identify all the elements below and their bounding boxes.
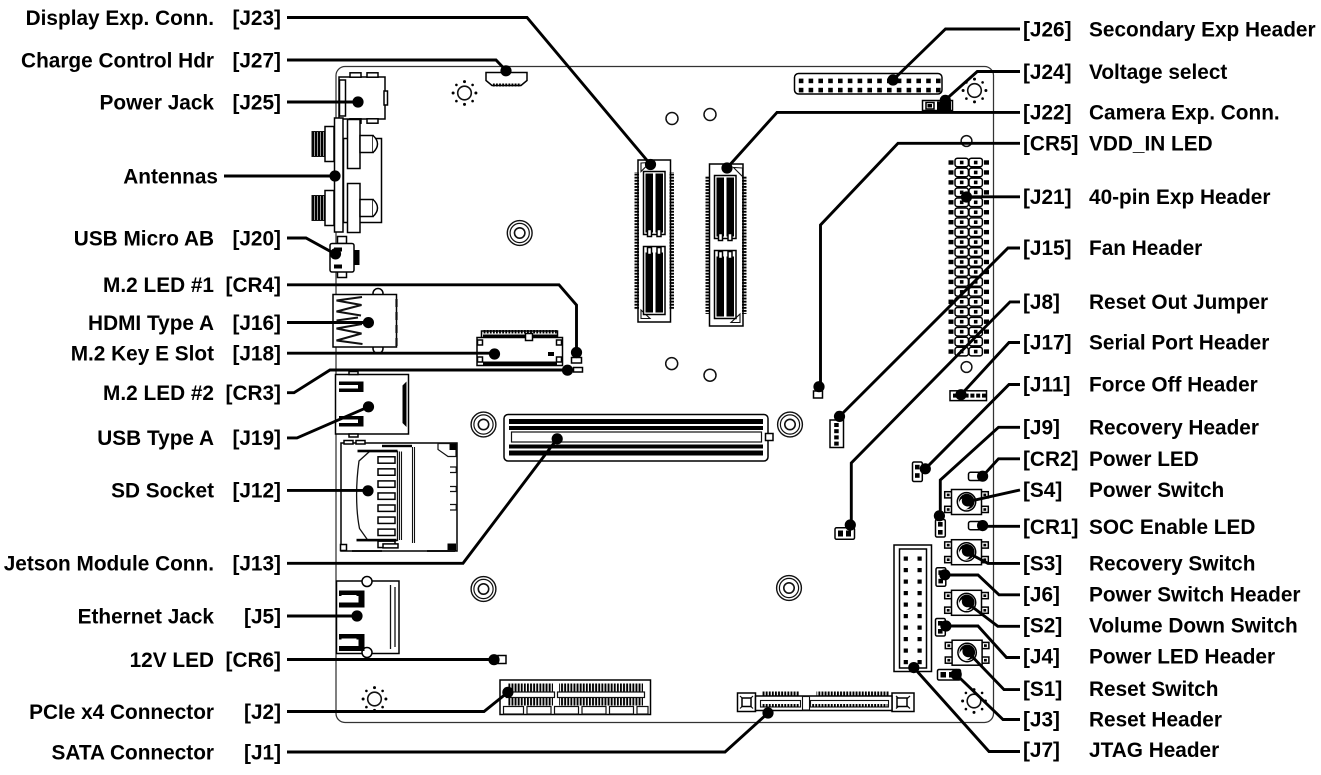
LED indicator mark top-right [962, 78, 988, 104]
svg-text:USB Micro AB: USB Micro AB [74, 227, 214, 250]
svg-text:[J22]: [J22] [1023, 102, 1072, 125]
wire J7 [914, 668, 1020, 752]
wire J19 [287, 407, 369, 438]
wire J21 [967, 195, 1021, 198]
svg-text:Power Switch: Power Switch [1089, 479, 1224, 502]
svg-text:[CR4]: [CR4] [226, 274, 281, 297]
wire J15 [840, 248, 1021, 416]
wire J8 [851, 302, 1020, 522]
wire J12 [287, 489, 368, 492]
svg-text:[J2]: [J2] [244, 701, 281, 724]
fan header J15 [830, 420, 844, 448]
svg-text:SD Socket: SD Socket [111, 480, 214, 503]
svg-text:Voltage select: Voltage select [1089, 61, 1227, 84]
power jack J25 [339, 73, 388, 123]
svg-text:Reset Out Jumper: Reset Out Jumper [1089, 291, 1268, 314]
svg-text:Recovery Switch: Recovery Switch [1089, 553, 1255, 576]
svg-text:Charge Control Hdr: Charge Control Hdr [21, 49, 214, 72]
svg-text:USB Type A: USB Type A [97, 427, 214, 450]
svg-text:[J8]: [J8] [1023, 291, 1060, 314]
wire S4 [967, 490, 1020, 502]
svg-text:Jetson Module Conn.: Jetson Module Conn. [4, 553, 214, 576]
HDMI type A J16 [333, 289, 397, 354]
LED indicator mark bottom-left [362, 686, 388, 712]
wire J23 [287, 18, 651, 165]
via hole D [961, 362, 972, 373]
wire J4 [946, 626, 1020, 658]
svg-text:[J27]: [J27] [232, 49, 281, 72]
wire S1 [968, 652, 1020, 690]
svg-text:[J15]: [J15] [1023, 237, 1072, 260]
svg-text:[J16]: [J16] [232, 312, 281, 335]
serial port header J17 [950, 391, 987, 401]
power switch header J6 [936, 568, 946, 587]
svg-text:Fan Header: Fan Header [1089, 237, 1202, 260]
svg-text:[J11]: [J11] [1023, 374, 1070, 397]
svg-text:[CR2]: [CR2] [1023, 448, 1078, 471]
via hole B [704, 109, 716, 121]
antennas assembly [312, 118, 382, 233]
svg-text:VDD_IN LED: VDD_IN LED [1089, 133, 1213, 156]
svg-text:Power Switch Header: Power Switch Header [1089, 584, 1301, 607]
svg-text:[J26]: [J26] [1023, 18, 1072, 41]
wire J27 [287, 60, 506, 71]
wire J20 [287, 238, 335, 254]
JTAG header J7 [894, 545, 932, 672]
svg-text:[J13]: [J13] [232, 553, 281, 576]
svg-text:[J19]: [J19] [232, 427, 281, 450]
via hole E2 [961, 136, 972, 147]
svg-text:Serial Port Header: Serial Port Header [1089, 332, 1269, 355]
svg-text:Camera Exp. Conn.: Camera Exp. Conn. [1089, 102, 1280, 125]
svg-text:[J9]: [J9] [1023, 417, 1060, 440]
svg-text:[S4]: [S4] [1023, 479, 1062, 502]
svg-text:[CR5]: [CR5] [1023, 133, 1078, 156]
wire CR2 [983, 459, 1020, 476]
voltage select J24 [923, 101, 953, 111]
svg-text:SATA Connector: SATA Connector [51, 741, 214, 764]
recovery header J9 [936, 520, 946, 538]
wire CR1 [983, 524, 1020, 528]
wire J25 [287, 101, 358, 104]
mounting hole bottom-left [471, 577, 496, 602]
svg-text:40-pin Exp Header: 40-pin Exp Header [1089, 186, 1270, 209]
svg-text:[CR6]: [CR6] [226, 649, 281, 672]
secondary expansion header J26 [795, 74, 943, 95]
svg-text:Display Exp. Conn.: Display Exp. Conn. [26, 7, 214, 30]
recovery switch S3 [945, 540, 989, 565]
VDD_IN LED CR5 component [814, 391, 823, 398]
mounting hole right of module connector [778, 412, 803, 437]
wire antennas [224, 175, 335, 178]
svg-text:Power LED Header: Power LED Header [1089, 646, 1275, 669]
LED indicator mark top-left [452, 80, 478, 106]
SATA connector J1 [738, 692, 915, 712]
wire J24 [945, 72, 1020, 101]
USB type A J19 [336, 372, 409, 438]
svg-text:SOC Enable LED: SOC Enable LED [1089, 516, 1255, 539]
svg-text:M.2 LED #1: M.2 LED #1 [103, 274, 214, 297]
wire J1 [287, 713, 768, 752]
svg-text:[J7]: [J7] [1023, 739, 1060, 762]
svg-text:[CR3]: [CR3] [226, 382, 281, 405]
USB micro AB J20 [330, 237, 360, 278]
wire J13 [287, 439, 557, 564]
via hole D2 [704, 369, 716, 381]
wire S2 [967, 603, 1020, 627]
wire CR4 [287, 285, 577, 352]
svg-text:[S3]: [S3] [1023, 553, 1062, 576]
svg-text:12V LED: 12V LED [130, 649, 214, 672]
wire J17 [961, 343, 1020, 395]
svg-text:[J5]: [J5] [244, 605, 281, 628]
svg-text:Recovery Header: Recovery Header [1089, 417, 1259, 440]
wire J11 [925, 385, 1020, 469]
svg-text:Force Off Header: Force Off Header [1089, 374, 1258, 397]
wire J22 [727, 112, 1020, 168]
LED indicator mark bottom-right [961, 688, 987, 714]
svg-text:[J18]: [J18] [232, 342, 281, 365]
wire J9 [940, 427, 1020, 514]
svg-text:[J21]: [J21] [1023, 186, 1072, 209]
power LED CR2 component [969, 472, 982, 480]
svg-text:[J17]: [J17] [1023, 332, 1072, 355]
PCIe x4 connector J2 [500, 680, 651, 715]
wire J5 [287, 615, 357, 618]
svg-text:Power Jack: Power Jack [100, 91, 215, 114]
power switch S4 [945, 490, 989, 515]
wire J2 [287, 692, 508, 711]
Jetson module connector J13 (SO-DIMM) [504, 415, 773, 462]
mounting hole top-middle [507, 221, 532, 246]
svg-text:[J24]: [J24] [1023, 61, 1072, 84]
ethernet jack J5 [337, 577, 400, 658]
wire J6 [946, 575, 1020, 595]
svg-text:[J4]: [J4] [1023, 646, 1060, 669]
SOC enable LED CR1 component [969, 522, 982, 530]
svg-text:JTAG Header: JTAG Header [1089, 739, 1219, 762]
svg-text:[J20]: [J20] [232, 227, 281, 250]
mounting hole left of module connector [471, 412, 496, 437]
via hole A [666, 113, 678, 125]
svg-text:[J25]: [J25] [232, 91, 281, 114]
svg-text:[CR1]: [CR1] [1023, 516, 1078, 539]
wire J18 [287, 352, 494, 355]
M.2 LED CR3 component [574, 368, 583, 373]
reset out jumper J8 [835, 528, 855, 540]
svg-text:M.2 Key E Slot: M.2 Key E Slot [71, 342, 214, 365]
svg-text:[J23]: [J23] [232, 7, 281, 30]
wire CR3 [287, 370, 567, 393]
svg-text:PCIe x4 Connector: PCIe x4 Connector [29, 701, 214, 724]
12V LED CR6 component [498, 656, 506, 664]
wire J26 [893, 29, 1020, 80]
SD socket J12 [341, 441, 458, 552]
svg-text:[J12]: [J12] [232, 480, 281, 503]
wire S3 [967, 552, 1021, 563]
svg-text:M.2 LED #2: M.2 LED #2 [103, 382, 214, 405]
display expansion connector J23 [635, 160, 675, 322]
svg-text:Power LED: Power LED [1089, 448, 1199, 471]
M.2 LED CR4 component [572, 358, 582, 364]
reset header J3 [938, 670, 961, 681]
svg-text:[J6]: [J6] [1023, 584, 1060, 607]
power LED header J4 [936, 619, 946, 637]
board outline [336, 67, 994, 723]
svg-text:Reset Header: Reset Header [1089, 709, 1222, 732]
40-pin expansion header J21 [949, 158, 990, 356]
svg-text:[J3]: [J3] [1023, 709, 1060, 732]
wire CR5 [821, 143, 1021, 384]
mounting hole bottom-middle [777, 576, 802, 601]
svg-text:[J1]: [J1] [244, 741, 281, 764]
svg-text:Ethernet Jack: Ethernet Jack [78, 605, 215, 628]
svg-text:Volume Down Switch: Volume Down Switch [1089, 615, 1298, 638]
force off header J11 [913, 462, 923, 482]
reset switch S1 [945, 640, 989, 665]
svg-text:HDMI Type A: HDMI Type A [88, 312, 214, 335]
svg-text:Reset Switch: Reset Switch [1089, 678, 1218, 701]
camera expansion connector J22 [706, 164, 747, 326]
svg-text:[S2]: [S2] [1023, 615, 1062, 638]
charge control header J27 [486, 73, 527, 87]
volume down switch S2 [945, 590, 989, 615]
svg-text:[S1]: [S1] [1023, 678, 1062, 701]
wire J3 [956, 675, 1020, 720]
svg-text:Antennas: Antennas [123, 165, 218, 188]
M.2 Key E slot J18 [477, 330, 563, 366]
wire J16 [287, 321, 368, 324]
wire CR6 [287, 658, 494, 661]
svg-text:Secondary Exp Header: Secondary Exp Header [1089, 18, 1316, 41]
via hole C [666, 358, 678, 370]
